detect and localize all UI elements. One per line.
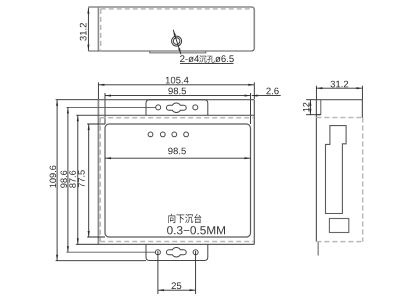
- side view flange step: [316, 100, 320, 115]
- dimension 105.4: [98, 77, 254, 99]
- top ear slot: [166, 103, 186, 112]
- bottom ear left hole: [155, 250, 160, 255]
- inner recessed platform: [105, 124, 251, 237]
- top view hidden dashed lines: [101, 9, 250, 50]
- note 向下沉台: [168, 214, 201, 223]
- dimension 98.5 inner: [105, 148, 251, 159]
- side view bottom tail: [317, 242, 319, 256]
- side view hidden dashed outline: [316, 118, 362, 242]
- extension line to bottom ear hole: [66, 251, 155, 253]
- dimension 98.6: [61, 107, 68, 252]
- dimension 31.2 top view: [87, 8, 89, 51]
- dimension 109.6: [50, 100, 146, 261]
- top ear left hole: [156, 105, 161, 110]
- leader 2.6: [252, 88, 281, 96]
- note 0.3-0.5MM: [167, 226, 225, 234]
- bottom ear: [146, 244, 208, 260]
- dimension 87.6: [69, 115, 78, 244]
- dimension 31.2 side view: [316, 81, 362, 100]
- top view countersink hole: [172, 36, 182, 46]
- top ear: [146, 100, 208, 116]
- side view stepped bracket: [326, 126, 347, 214]
- dimension 12 side view: [303, 100, 321, 115]
- top ear right hole: [193, 105, 198, 110]
- hole label 2-ø4沉孔ø6.5: [180, 55, 199, 62]
- front view outer plate: [76, 100, 254, 245]
- top view outline: [88, 7, 254, 51]
- four vent holes: [148, 132, 188, 137]
- top view ear tab edge: [150, 51, 206, 53]
- extension line to top ear hole: [66, 106, 155, 108]
- side view outline: [316, 100, 362, 242]
- leader underline: [180, 62, 234, 64]
- dimension 98.5 top: [105, 88, 251, 124]
- side view small rectangle: [329, 219, 348, 233]
- bottom ear right hole: [193, 250, 198, 255]
- dimension 25: [158, 251, 196, 294]
- dimension 77.5: [78, 124, 105, 237]
- hole leader line: [173, 30, 181, 54]
- front view hidden dashed outline: [100, 118, 253, 242]
- bottom ear slot: [166, 248, 186, 257]
